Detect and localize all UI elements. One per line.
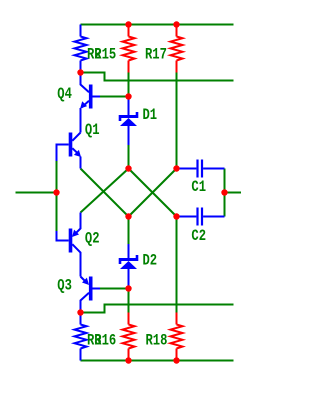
svg-text:R15: R15 (94, 46, 116, 64)
wire R17 bottom to diamond top-right (176, 73, 178, 169)
wire R15 bottom to Q4 base node (128, 73, 130, 97)
resistor R17 (171, 25, 183, 73)
wire D1 anode to diamond top-left (128, 144, 130, 169)
junction dot diamond top-left (125, 165, 131, 171)
svg-text:Q2: Q2 (85, 230, 100, 248)
wire Q2 emitter diagonal (81, 169, 129, 213)
wire top supply rail (81, 24, 234, 26)
svg-text:R18: R18 (146, 332, 168, 350)
svg-text:C1: C1 (191, 179, 206, 197)
resistor R18 (171, 313, 183, 361)
capacitor C1 (177, 160, 225, 178)
junction dot C1 C2 midpoint (221, 189, 227, 195)
wire diamond bottom-right to R18 (176, 217, 178, 313)
transistor Q1 (57, 133, 82, 169)
junction dot bottom rail R16 (125, 357, 131, 363)
junction dot rail R15 (125, 21, 131, 27)
wire Q4 base to D1 node (99, 96, 129, 98)
capacitor C2 (177, 208, 225, 226)
wire left input (16, 192, 57, 194)
diode D1 (119, 97, 139, 146)
junction dot Q3 emitter R3 (77, 309, 83, 315)
svg-text:Q4: Q4 (57, 85, 72, 103)
resistor R16 (123, 313, 135, 361)
svg-text:C2: C2 (191, 228, 206, 246)
junction dot Q3 base D2 (125, 285, 131, 291)
svg-text:D1: D1 (143, 107, 158, 125)
junction dot Q4 base D1 (125, 93, 131, 99)
resistor R3 (75, 313, 87, 361)
wire output stub node B (225, 192, 242, 194)
wire diamond cross down (129, 169, 177, 217)
wire bottom supply rail (81, 360, 234, 362)
svg-text:Q1: Q1 (85, 122, 100, 140)
wire base rail Q1-Q2 (56, 160, 58, 232)
resistor R15 (123, 25, 135, 73)
wire C1 right to C2 right (224, 169, 226, 217)
transistor Q2 (57, 213, 81, 277)
junction dot diamond bottom-left (125, 213, 131, 219)
transistor Q4 (80, 73, 100, 133)
transistor Q3 (81, 277, 101, 313)
junction dot bottom rail R18 (173, 357, 179, 363)
junction dot input node (53, 189, 59, 195)
diode D2 (119, 244, 139, 289)
wire Q1 emitter diagonal (81, 169, 129, 217)
wire Q3 base to D2 node (99, 288, 129, 290)
wire base rail blue stubs (56, 144, 58, 242)
junction dot node A top R2 (77, 69, 83, 75)
resistor R2 (75, 25, 87, 73)
wire diamond cross up (129, 169, 177, 217)
junction dot rail R17 (173, 21, 179, 27)
wire bottom step from Q3 emitter node to right (81, 305, 234, 313)
wire D2 anode node to R16 (128, 289, 130, 313)
svg-text:D2: D2 (143, 252, 158, 270)
junction dot diamond bottom-right (173, 213, 179, 219)
wire diamond bottom-left to D2 (128, 217, 130, 246)
wire top step from node A to right (81, 73, 234, 81)
svg-text:Q3: Q3 (57, 277, 72, 295)
svg-text:R16: R16 (94, 332, 116, 350)
junction dot diamond top-right (173, 165, 179, 171)
svg-text:R17: R17 (145, 46, 167, 64)
